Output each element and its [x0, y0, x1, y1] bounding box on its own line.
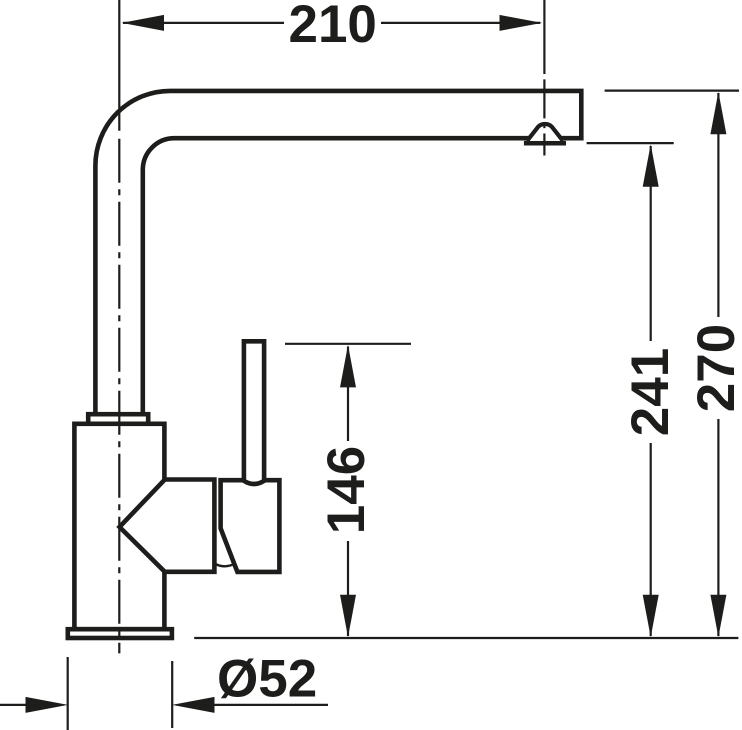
extension line diameter right [171, 661, 173, 728]
svg-text:146: 146 [317, 446, 376, 534]
aerator bell fill [527, 124, 563, 141]
handle [221, 480, 280, 572]
dimension 241 line upper segment [650, 146, 652, 341]
dimension 270 line upper segment [717, 93, 719, 317]
dimension 210 line right segment [381, 22, 540, 24]
outlet centerline [543, 0, 545, 156]
riser centerline dash-dot [118, 139, 120, 654]
dimension 146 line upper segment [347, 347, 349, 442]
aerator bell outline [527, 124, 563, 141]
faucet spout pipe [95, 91, 581, 416]
svg-text:270: 270 [687, 324, 742, 412]
svg-text:241: 241 [621, 348, 680, 436]
lever rod [244, 341, 264, 484]
svg-text:Ø52: Ø52 [217, 649, 317, 708]
extension line diameter left [67, 657, 69, 730]
dimension 210 line left segment [123, 22, 284, 24]
dimension 241 bottom arrow [643, 595, 659, 638]
ground line [194, 637, 738, 639]
dimension 146 line lower segment [347, 541, 349, 636]
diameter dim right arrow [172, 697, 215, 713]
dimension 210 right arrow [500, 15, 543, 31]
dimension 146 bottom arrow [340, 595, 356, 638]
aerator bar [524, 141, 566, 146]
extension line for 241 [587, 142, 674, 144]
housing bottom seam arc [214, 563, 236, 566]
diameter dim line right [214, 704, 328, 706]
dimension 210 left arrow [122, 15, 165, 31]
riser centerline solid part [118, 0, 120, 131]
body [74, 424, 164, 629]
collar [88, 414, 148, 424]
diameter dim left arrow [26, 697, 69, 713]
diameter dim line left [0, 704, 26, 706]
dimension 241 line lower segment [650, 443, 652, 636]
valve housing pentagon [120, 480, 215, 572]
dimension 241 top arrow [643, 144, 659, 187]
svg-text:210: 210 [288, 0, 376, 54]
base flange [68, 629, 172, 638]
extension line for 146 [285, 343, 411, 345]
dimension 270 top arrow [710, 92, 726, 135]
extension line for 270 [605, 89, 739, 91]
dimension 146 top arrow [340, 345, 356, 388]
dimension 270 bottom arrow [710, 595, 726, 638]
dimension 270 line lower segment [717, 419, 719, 636]
